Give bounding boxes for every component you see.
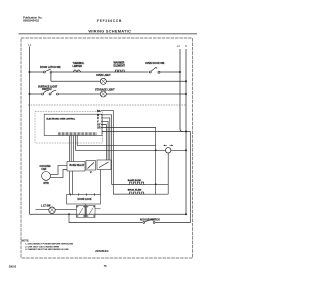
indicator lamp with arrows xyxy=(164,145,174,154)
svg-text:FAN: FAN xyxy=(42,168,47,171)
junction indicator at N xyxy=(185,149,187,151)
wire V down to relay box xyxy=(101,121,108,160)
junction rail1-L1 xyxy=(29,71,31,73)
svg-text:WIRING SCHEMATIC: WIRING SCHEMATIC xyxy=(88,29,131,34)
svg-text:BK: BK xyxy=(97,110,101,113)
bake element row xyxy=(112,179,169,184)
wire inner right drop xyxy=(190,132,192,223)
wire bottom long rail xyxy=(30,213,187,215)
wire GY down to relay box xyxy=(101,125,106,161)
svg-text:76: 76 xyxy=(104,264,107,268)
door lock box xyxy=(67,193,101,204)
svg-text:2. USE ONLY 105 C RATED WIRE: 2. USE ONLY 105 C RATED WIRE xyxy=(25,245,59,248)
svg-text:3. CABINET MUST BE GROUNDED I: 3. CABINET MUST BE GROUNDED IN USE xyxy=(25,248,69,251)
svg-text:OVEN DOOR SW.: OVEN DOOR SW. xyxy=(145,62,165,65)
switch oven door bottom xyxy=(140,219,160,224)
lamp storage light on rail 3 xyxy=(95,88,115,97)
switch door latch on rail 1 xyxy=(40,66,61,73)
lock switch box 2 xyxy=(87,205,96,217)
junction rail2-N xyxy=(185,80,187,82)
wire relay1 to lock box 1 xyxy=(69,171,71,195)
lock center wire xyxy=(85,204,87,218)
svg-text:MTR: MTR xyxy=(44,182,49,185)
wire branch rail1 to rail2 xyxy=(50,73,52,81)
junction board wire at N xyxy=(185,131,187,133)
junction riser row A xyxy=(155,183,157,185)
svg-text:DOOR LOCK: DOOR LOCK xyxy=(78,199,92,201)
relay box K2 xyxy=(86,161,96,174)
svg-text:BAKE RELAY: BAKE RELAY xyxy=(70,164,85,167)
switch thermal limiter on rail 1 xyxy=(73,62,85,72)
svg-text:NOTE:: NOTE: xyxy=(22,239,30,242)
wire BK to broil element row xyxy=(101,111,130,195)
lock right stub xyxy=(95,208,101,210)
svg-text:BROIL ELEM: BROIL ELEM xyxy=(128,190,142,192)
note block xyxy=(22,239,74,251)
control board terminal hatch row xyxy=(58,132,96,135)
svg-text:STORAGE LIGHT: STORAGE LIGHT xyxy=(95,88,115,91)
svg-text:1. DISCONNECT POWER BEFORE SE: 1. DISCONNECT POWER BEFORE SERVICING xyxy=(25,244,73,246)
relay box K3 xyxy=(97,160,111,170)
svg-text:39003: 39003 xyxy=(9,265,17,269)
wire N vertical xyxy=(185,49,187,214)
relay box K1 xyxy=(67,162,85,172)
title rule xyxy=(19,33,198,35)
lock switch box 1 xyxy=(77,205,86,217)
wire bundle board bottom 3 xyxy=(72,135,74,161)
wire long dashed feeder xyxy=(28,104,186,106)
motor cooling fan xyxy=(40,165,51,185)
console dashed box xyxy=(35,112,103,144)
junction rail1-L2 xyxy=(179,71,181,73)
wire motor to relay xyxy=(50,166,67,175)
svg-text:ELECTRONIC OVEN CONTROL: ELECTRONIC OVEN CONTROL xyxy=(47,118,76,120)
wire board to L2/N at 131.5 xyxy=(102,131,191,133)
wire L1 vertical xyxy=(29,47,31,215)
svg-text:DOOR LATCH SW.: DOOR LATCH SW. xyxy=(40,66,61,69)
border frame xyxy=(21,38,193,258)
svg-text:BAKE ELEM: BAKE ELEM xyxy=(128,179,141,182)
wire rail 1 xyxy=(30,71,181,73)
wire bundle to riser mid xyxy=(77,135,156,145)
svg-text:JWS2BUFF: JWS2BUFF xyxy=(95,249,109,253)
control board U1 xyxy=(44,114,102,135)
header publication text xyxy=(23,15,43,22)
svg-text:OVEN LIGHT: OVEN LIGHT xyxy=(96,74,111,77)
latch lamp xyxy=(36,204,77,213)
wire bundle board bottom 2 xyxy=(70,135,72,161)
svg-text:FEF366CCB: FEF366CCB xyxy=(97,19,122,23)
wire door switch branch xyxy=(69,214,191,222)
junction rail3-N xyxy=(185,93,187,95)
wire bundle board bottom 1 xyxy=(68,135,70,161)
wire rail 3 xyxy=(30,93,187,95)
wire relayC to lock box right xyxy=(100,170,102,195)
wire OR to element riser xyxy=(101,128,156,195)
wire rail 2 xyxy=(51,80,186,82)
switch light switch on rail 3 xyxy=(38,85,59,95)
wire riser right elements xyxy=(167,153,169,194)
junction riser-indicator xyxy=(155,149,157,151)
wire bundle to indicator line xyxy=(75,135,186,150)
wire W to bake element row xyxy=(101,115,130,185)
svg-text:5995343432: 5995343432 xyxy=(23,19,39,23)
junction rail3-L1 xyxy=(29,93,31,95)
svg-text:L LT SW: L LT SW xyxy=(41,204,51,207)
svg-text:N: N xyxy=(185,44,187,48)
svg-text:L1: L1 xyxy=(28,43,32,47)
resistor vent heater on rail 1 xyxy=(114,62,126,72)
svg-text:ELEMENT: ELEMENT xyxy=(114,64,126,67)
wire relay1 to lock box 2 xyxy=(72,171,74,195)
svg-text:L2: L2 xyxy=(177,44,181,48)
junction bottom rail at N xyxy=(185,213,187,215)
switch oven door on rail 1 xyxy=(145,62,165,73)
wire L2 vertical xyxy=(180,49,183,132)
broil element row xyxy=(113,190,168,195)
wire motor lower to relay xyxy=(50,170,67,178)
junction branch xyxy=(68,213,70,215)
svg-text:LIMITER: LIMITER xyxy=(73,65,83,68)
lamp oven light on rail 2 xyxy=(96,74,111,84)
svg-text:OR: OR xyxy=(97,127,101,130)
wire R down to relay box xyxy=(101,118,110,160)
